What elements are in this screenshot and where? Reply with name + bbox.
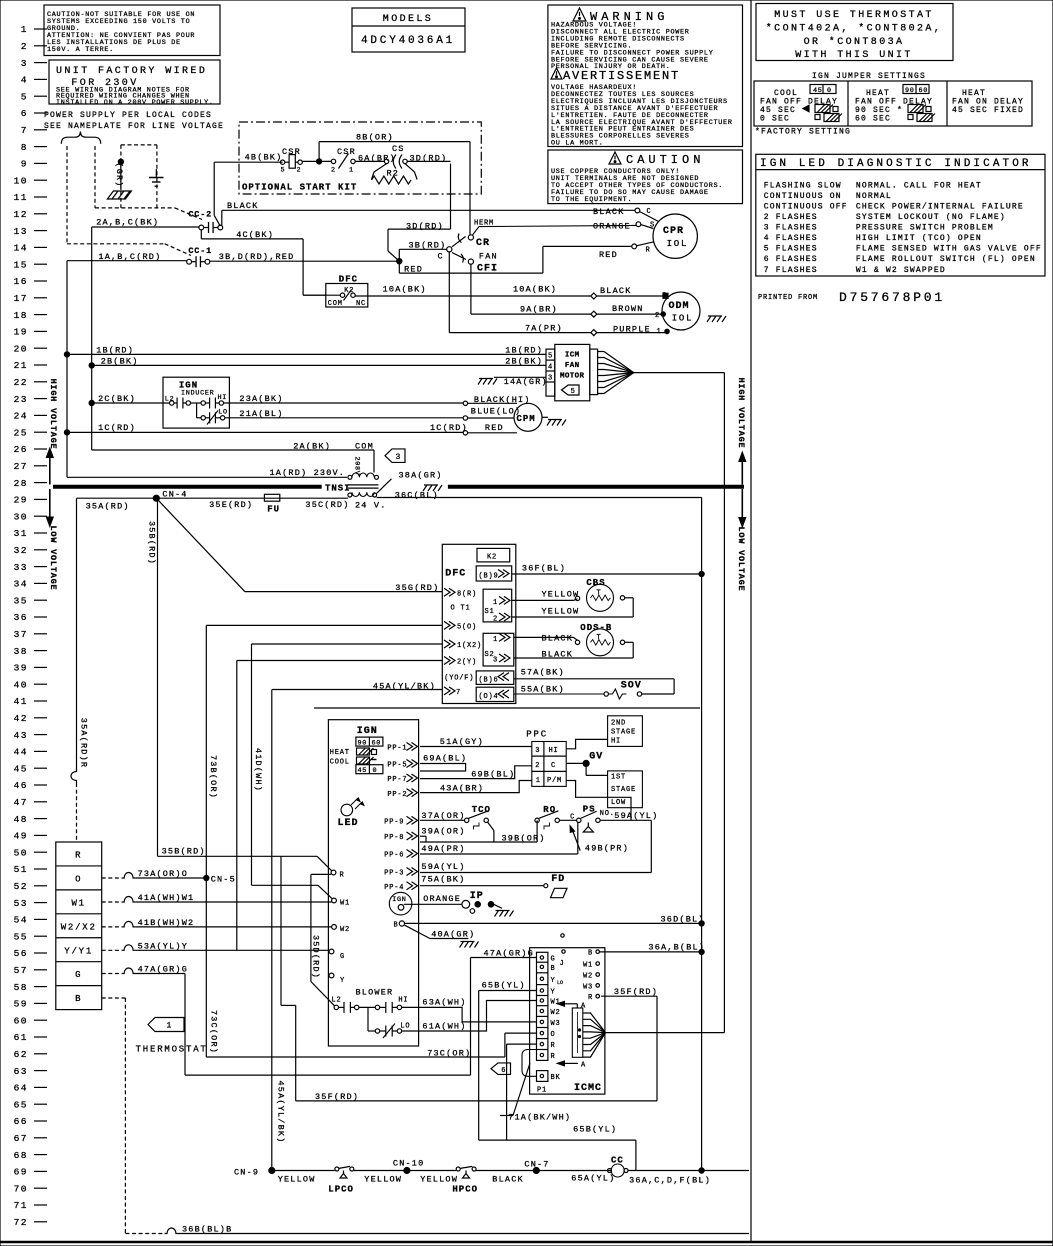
svg-text:A: A (581, 1003, 586, 1011)
control DFC box (442, 544, 516, 703)
svg-text:1A(RD) 230V.: 1A(RD) 230V. (270, 468, 346, 478)
svg-text:37: 37 (14, 629, 28, 640)
svg-text:GV: GV (589, 752, 603, 763)
svg-text:2: 2 (331, 167, 336, 175)
node junction start kit (317, 159, 322, 164)
svg-text:PP-7: PP-7 (387, 776, 407, 784)
svg-text:4B(BK): 4B(BK) (245, 153, 283, 163)
page right divider (750, 0, 752, 1242)
svg-text:36C(BL): 36C(BL) (395, 490, 439, 500)
svg-text:D757678P01: D757678P01 (839, 290, 945, 305)
svg-text:25: 25 (14, 427, 28, 438)
svg-text:2 FLASHES: 2 FLASHES (764, 213, 818, 222)
svg-text:B: B (75, 994, 82, 1004)
svg-text:G: G (75, 970, 82, 980)
svg-text:15: 15 (14, 259, 28, 270)
DFC pin (B)6 (476, 671, 514, 685)
motor ICM FAN MOTOR (546, 349, 555, 396)
DFC S1 cell (483, 589, 512, 622)
svg-text:58: 58 (14, 982, 28, 993)
svg-text:IOL: IOL (672, 314, 694, 324)
svg-text:LO: LO (400, 1022, 410, 1030)
svg-text:2A,B,C(BK): 2A,B,C(BK) (96, 218, 159, 228)
motor ODM (662, 292, 700, 330)
svg-text:45 SEC FIXED: 45 SEC FIXED (952, 106, 1024, 115)
svg-text:69A(BL): 69A(BL) (423, 754, 467, 764)
svg-text:OU LA MORT.: OU LA MORT. (551, 140, 604, 148)
svg-text:49: 49 (14, 831, 28, 842)
svg-text:60: 60 (14, 1015, 28, 1026)
power lead L1 dashed (66, 146, 68, 244)
svg-text:FLAME ROLLOUT SWITCH (FL) OPEN: FLAME ROLLOUT SWITCH (FL) OPEN (856, 255, 1036, 264)
svg-text:YELLOW: YELLOW (278, 1175, 316, 1185)
svg-text:54: 54 (14, 915, 28, 926)
svg-text:W2: W2 (340, 926, 350, 934)
wire 53A(YL) (237, 660, 443, 662)
svg-text:2: 2 (655, 312, 660, 320)
svg-text:CN-10: CN-10 (393, 1159, 425, 1169)
svg-text:BLACK: BLACK (492, 1175, 524, 1185)
heavy line high/low voltage divider (53, 485, 322, 489)
compressor CPR (653, 214, 697, 258)
svg-text:14: 14 (14, 243, 28, 254)
DFC S2 cell (483, 633, 514, 666)
svg-text:63: 63 (14, 1066, 28, 1077)
svg-text:COOL: COOL (330, 759, 350, 767)
svg-text:72: 72 (14, 1217, 28, 1228)
svg-text:1: 1 (167, 1022, 173, 1031)
svg-text:22: 22 (14, 377, 28, 388)
svg-text:O T1: O T1 (451, 605, 471, 613)
svg-text:LO: LO (557, 980, 563, 986)
svg-text:75A(BK): 75A(BK) (421, 875, 465, 885)
svg-text:C: C (570, 814, 575, 822)
svg-text:1: 1 (493, 599, 498, 607)
svg-text:36A,C,D,F(BL): 36A,C,D,F(BL) (629, 1176, 711, 1186)
DFC pin 7 (444, 687, 455, 695)
IGN board terminal G (329, 949, 334, 954)
svg-text:1ST: 1ST (611, 774, 626, 782)
svg-text:20: 20 (14, 343, 28, 354)
ign led diagnostic indicator box (756, 154, 1045, 276)
svg-text:38A(GR): 38A(GR) (399, 471, 443, 481)
svg-text:THERMOSTAT: THERMOSTAT (136, 1045, 208, 1055)
svg-text:AVERTISSEMENT: AVERTISSEMENT (563, 69, 680, 83)
svg-text:2ND: 2ND (611, 720, 626, 728)
svg-text:19: 19 (14, 327, 28, 338)
svg-text:38: 38 (14, 646, 28, 657)
svg-text:FU: FU (267, 505, 280, 515)
svg-text:49A(PR): 49A(PR) (421, 844, 465, 854)
svg-text:ODM: ODM (669, 301, 690, 312)
svg-text:PRINTED FROM: PRINTED FROM (758, 294, 818, 302)
svg-text:W1 & W2 SWAPPED: W1 & W2 SWAPPED (856, 266, 946, 275)
svg-text:71A(BK/WH): 71A(BK/WH) (508, 1112, 571, 1122)
svg-text:5: 5 (21, 91, 28, 102)
svg-text:CR: CR (476, 238, 490, 249)
svg-text:Y: Y (340, 977, 345, 985)
svg-text:BLACK: BLACK (542, 634, 574, 644)
wire 41D jog to W1 (252, 884, 319, 886)
svg-text:HEAT: HEAT (330, 749, 350, 757)
svg-text:7: 7 (21, 125, 28, 136)
IGN board terminal W1 (332, 898, 337, 903)
thermostat wire O 73A (102, 877, 122, 879)
thermostat wire W1 41A (102, 901, 122, 903)
flag 5 (562, 385, 580, 395)
svg-text:PP-4: PP-4 (384, 884, 404, 892)
svg-text:R: R (551, 1042, 556, 1050)
svg-text:CN-9: CN-9 (234, 1167, 259, 1177)
wire P/M to PS NO (566, 781, 631, 821)
spark ground (494, 904, 502, 908)
ICMC right pins (596, 950, 600, 954)
svg-text:FLASHING SLOW: FLASHING SLOW (764, 181, 842, 190)
svg-text:65B(YL): 65B(YL) (573, 1125, 617, 1135)
wire to CSR contact (302, 160, 331, 162)
svg-text:1: 1 (349, 167, 354, 175)
DFC pin (B)9 (476, 566, 512, 581)
svg-text:PP-8: PP-8 (384, 834, 404, 842)
svg-text:6: 6 (21, 108, 28, 119)
svg-text:TNSI: TNSI (325, 484, 351, 494)
control ICMC box (530, 948, 605, 1094)
svg-text:90: 90 (905, 87, 915, 95)
svg-text:HIGH VOLTAGE: HIGH VOLTAGE (48, 379, 58, 450)
svg-text:36D(BL): 36D(BL) (661, 914, 705, 924)
svg-text:UNIT FACTORY WIRED: UNIT FACTORY WIRED (56, 66, 207, 77)
svg-text:24 V.: 24 V. (355, 501, 387, 511)
DFC pin 1(X2) (444, 640, 455, 648)
svg-text:27: 27 (14, 461, 28, 472)
svg-text:90: 90 (358, 739, 368, 747)
svg-text:W3: W3 (551, 1020, 561, 1028)
page bottom border (0, 1241, 1053, 1244)
svg-text:W2: W2 (583, 973, 593, 981)
svg-text:3: 3 (21, 58, 28, 69)
DFC pin 5(O) (444, 621, 455, 629)
ICMC pin column (537, 952, 548, 1060)
svg-text:1: 1 (21, 24, 28, 35)
svg-text:SOV: SOV (621, 681, 642, 692)
spark igniter IGN (389, 892, 412, 915)
svg-text:W3: W3 (583, 983, 593, 991)
ICM connector fan-out (590, 349, 598, 395)
svg-text:FD: FD (551, 874, 565, 885)
svg-text:0 SEC: 0 SEC (760, 115, 790, 124)
svg-text:5(O): 5(O) (457, 624, 477, 632)
svg-text:IGN JUMPER SETTINGS: IGN JUMPER SETTINGS (812, 72, 926, 81)
svg-text:P/M: P/M (547, 777, 562, 785)
wire HERM to S (gray) (473, 225, 636, 235)
svg-text:T: T (597, 634, 602, 642)
inducer IGN INDUCER box (163, 377, 229, 428)
svg-text:LOW: LOW (611, 799, 626, 807)
svg-text:36F(BL): 36F(BL) (522, 564, 566, 574)
svg-text:35F(RD): 35F(RD) (614, 987, 658, 997)
svg-text:HI: HI (611, 738, 621, 746)
svg-text:42: 42 (14, 713, 28, 724)
svg-text:TO THE EQUIPMENT.: TO THE EQUIPMENT. (551, 196, 632, 204)
svg-text:2(Y): 2(Y) (457, 659, 477, 667)
DFC pin 2(Y) (444, 657, 455, 665)
svg-text:66: 66 (14, 1116, 28, 1127)
bus 36(BL) vertical (701, 498, 703, 1172)
svg-text:50: 50 (14, 847, 28, 858)
svg-text:7 FLASHES: 7 FLASHES (764, 266, 818, 275)
svg-text:26: 26 (14, 444, 28, 455)
DFC K2 cell (477, 548, 510, 562)
svg-text:L2: L2 (332, 997, 342, 1005)
svg-text:56: 56 (14, 948, 28, 959)
splice bell on 35A (71, 769, 77, 783)
svg-text:5: 5 (281, 167, 286, 175)
svg-text:32: 32 (14, 545, 28, 556)
svg-text:43: 43 (14, 730, 28, 741)
svg-text:9: 9 (21, 159, 28, 170)
svg-text:NC: NC (356, 300, 366, 308)
ICMC connector A (572, 1008, 583, 1057)
svg-text:YELLOW: YELLOW (420, 1175, 458, 1185)
svg-text:70: 70 (14, 1183, 28, 1194)
svg-text:59A(YL): 59A(YL) (421, 862, 465, 872)
svg-text:LOW VOLTAGE: LOW VOLTAGE (48, 526, 58, 591)
svg-text:C: C (647, 208, 652, 216)
svg-text:49B(PR): 49B(PR) (585, 843, 629, 853)
svg-text:35A(RD): 35A(RD) (86, 502, 130, 512)
svg-text:T: T (597, 590, 602, 598)
svg-text:G: G (340, 953, 345, 961)
svg-text:*FACTORY SETTING: *FACTORY SETTING (755, 128, 851, 137)
svg-text:40: 40 (14, 679, 28, 690)
svg-text:3: 3 (396, 453, 402, 462)
svg-text:8: 8 (21, 142, 28, 153)
svg-text:0: 0 (827, 87, 832, 95)
svg-text:DFC: DFC (445, 569, 466, 580)
svg-text:FAN: FAN (479, 252, 498, 262)
svg-text:SYSTEM LOCKOUT (NO FLAME): SYSTEM LOCKOUT (NO FLAME) (856, 213, 1006, 222)
svg-text:35B(RD): 35B(RD) (147, 521, 157, 565)
svg-text:OR *CONT803A: OR *CONT803A (804, 36, 905, 48)
svg-text:ICMC: ICMC (574, 1083, 602, 1094)
svg-text:B: B (394, 922, 399, 930)
svg-text:FAN: FAN (565, 362, 580, 370)
svg-text:B: B (551, 965, 556, 973)
R bus down legs (280, 856, 282, 1005)
svg-text:2: 2 (535, 762, 540, 770)
svg-text:52: 52 (14, 881, 28, 892)
svg-text:73C(OR): 73C(OR) (209, 1010, 219, 1054)
svg-text:13: 13 (14, 226, 28, 237)
svg-text:CBS: CBS (586, 578, 605, 588)
svg-text:34: 34 (14, 579, 28, 590)
svg-text:71: 71 (14, 1200, 28, 1211)
svg-text:BK: BK (551, 1074, 561, 1082)
svg-text:60: 60 (372, 739, 382, 747)
thermostat strip (56, 842, 102, 1010)
svg-text:IGN: IGN (357, 726, 378, 737)
earth ground symbol (155, 169, 157, 178)
svg-text:ORANGE: ORANGE (593, 222, 631, 232)
svg-text:ORANGE: ORANGE (423, 894, 461, 904)
wire 35G(RD) diagonal (156, 498, 245, 591)
svg-text:33: 33 (14, 562, 28, 573)
svg-text:HPCO: HPCO (452, 1185, 478, 1195)
thermostat wire Y 53A (102, 949, 122, 951)
svg-text:R: R (551, 1053, 556, 1061)
power lead L2 dashed (94, 146, 96, 208)
svg-text:PP-5: PP-5 (387, 762, 407, 770)
svg-text:0: 0 (373, 767, 378, 775)
svg-text:STAGE: STAGE (611, 729, 636, 737)
svg-text:64: 64 (14, 1083, 28, 1094)
svg-text:30: 30 (14, 511, 28, 522)
svg-text:NORMAL. CALL FOR HEAT: NORMAL. CALL FOR HEAT (856, 181, 982, 190)
svg-text:12: 12 (14, 209, 28, 220)
svg-text:PRESSURE SWITCH PROBLEM: PRESSURE SWITCH PROBLEM (856, 224, 994, 233)
svg-text:J: J (560, 960, 565, 968)
svg-text:60: 60 (919, 87, 929, 95)
svg-text:55A(BK): 55A(BK) (521, 685, 565, 695)
svg-text:8(R): 8(R) (457, 591, 477, 599)
svg-text:BROWN: BROWN (612, 304, 644, 314)
svg-text:HIGH VOLTAGE: HIGH VOLTAGE (736, 378, 746, 449)
svg-text:P1: P1 (537, 1087, 547, 1095)
note: unit factory wired box (49, 60, 220, 104)
left bus 2(BK) (91, 227, 93, 450)
svg-text:45: 45 (14, 763, 28, 774)
thermostat wire G 47A (102, 973, 122, 975)
svg-text:4: 4 (21, 75, 28, 86)
wire HI to 2nd stage (566, 739, 607, 748)
svg-text:17: 17 (14, 293, 28, 304)
thermostat wire W2 41B (102, 926, 122, 928)
DFC pin 8(R) (444, 588, 455, 596)
must use thermostat box (756, 4, 953, 61)
svg-text:35E(RD): 35E(RD) (209, 500, 253, 510)
svg-text:7: 7 (456, 689, 461, 697)
svg-text:BLACK: BLACK (600, 286, 632, 296)
svg-text:C: C (438, 252, 444, 262)
thermostat wire B dashed (102, 997, 126, 999)
IGN board terminal R (331, 870, 336, 875)
svg-text:RED: RED (599, 250, 618, 260)
svg-text:BLACK: BLACK (593, 207, 625, 217)
DFC pin (O)4 (476, 687, 514, 701)
ground (GR) dashed box (120, 145, 122, 208)
svg-text:W1: W1 (340, 900, 350, 908)
svg-text:2: 2 (493, 616, 498, 624)
inducer contact HI (170, 401, 174, 405)
svg-text:51A(GY): 51A(GY) (440, 737, 484, 747)
svg-text:INDUCER: INDUCER (181, 390, 214, 398)
svg-text:31: 31 (14, 528, 28, 539)
svg-text:W2/X2: W2/X2 (61, 922, 97, 932)
svg-text:9A(BR): 9A(BR) (520, 305, 558, 315)
svg-text:61A(WH): 61A(WH) (422, 1022, 466, 1032)
svg-text:5: 5 (548, 353, 553, 361)
svg-text:57: 57 (14, 965, 28, 976)
svg-text:IGN: IGN (392, 896, 406, 904)
LED indicator (341, 804, 353, 816)
svg-text:PP-3: PP-3 (384, 870, 404, 878)
svg-text:MUST USE THERMOSTAT: MUST USE THERMOSTAT (774, 10, 934, 21)
svg-text:11: 11 (14, 192, 28, 203)
svg-text:O: O (75, 874, 82, 884)
svg-text:63A(WH): 63A(WH) (422, 997, 466, 1007)
svg-text:1C(RD): 1C(RD) (430, 423, 468, 433)
svg-text:29: 29 (14, 495, 28, 506)
svg-text:R: R (340, 872, 345, 880)
svg-text:BLACK: BLACK (227, 201, 259, 211)
svg-text:7A(PR): 7A(PR) (525, 323, 563, 333)
svg-text:W2: W2 (551, 1009, 561, 1017)
P1 jumper bracket (522, 1050, 537, 1077)
vertical 53 (236, 661, 238, 951)
svg-text:1C(RD): 1C(RD) (98, 423, 136, 433)
svg-text:CSR: CSR (282, 147, 301, 157)
svg-text:CONTINUOUS OFF: CONTINUOUS OFF (764, 202, 848, 211)
svg-text:CHECK POWER/INTERNAL FAILURE: CHECK POWER/INTERNAL FAILURE (856, 202, 1024, 211)
svg-text:47: 47 (14, 797, 28, 808)
svg-text:1: 1 (536, 777, 541, 785)
IGN board terminal W2 (332, 925, 337, 930)
svg-text:R: R (646, 247, 651, 255)
svg-text:CC-2: CC-2 (188, 210, 212, 220)
svg-text:RED: RED (485, 423, 504, 433)
svg-text:46: 46 (14, 780, 28, 791)
avertissement title (551, 68, 562, 79)
svg-text:2: 2 (297, 167, 302, 175)
power supply brace (61, 132, 100, 144)
svg-text:NO.: NO. (600, 810, 615, 818)
chassis ground symbol (107, 191, 131, 199)
svg-text:LOW VOLTAGE: LOW VOLTAGE (736, 527, 746, 592)
svg-text:PPC: PPC (526, 730, 548, 740)
svg-text:IGN LED DIAGNOSTIC INDICATOR: IGN LED DIAGNOSTIC INDICATOR (760, 158, 1032, 170)
svg-text:COM: COM (328, 300, 343, 308)
vertical 41 (251, 644, 253, 885)
svg-text:4: 4 (548, 364, 553, 372)
svg-text:36A,B(BL): 36A,B(BL) (648, 943, 705, 953)
svg-text:65B(YL): 65B(YL) (482, 981, 526, 991)
box 1ST STAGE LOW (608, 771, 643, 808)
svg-text:K2: K2 (487, 553, 497, 561)
wire to ICMC R pin (507, 1043, 537, 1045)
svg-text:14A(GR): 14A(GR) (504, 377, 548, 387)
svg-text:44: 44 (14, 747, 28, 758)
svg-text:PP-1: PP-1 (387, 745, 407, 753)
svg-text:60 SEC: 60 SEC (855, 115, 891, 124)
note: caution 150 volts box (44, 5, 220, 56)
dashed link to CC-1 (67, 243, 165, 245)
svg-text:10A(BK): 10A(BK) (383, 284, 427, 294)
svg-text:36: 36 (14, 612, 28, 623)
svg-text:OPTIONAL START KIT: OPTIONAL START KIT (242, 183, 357, 193)
svg-text:YELLOW: YELLOW (542, 607, 580, 617)
svg-text:SEE NAMEPLATE FOR LINE VOLTAGE: SEE NAMEPLATE FOR LINE VOLTAGE (44, 122, 224, 131)
svg-text:IOL: IOL (667, 239, 689, 249)
svg-text:6: 6 (501, 1067, 506, 1075)
svg-text:5: 5 (571, 388, 576, 396)
ODM ground (314, 707, 700, 709)
svg-text:CPR: CPR (663, 226, 684, 237)
svg-text:35: 35 (14, 595, 28, 606)
svg-text:59: 59 (14, 999, 28, 1010)
svg-text:35A(RD)R: 35A(RD)R (79, 718, 89, 768)
svg-text:WITH THIS UNIT: WITH THIS UNIT (795, 50, 913, 61)
caution box (548, 150, 743, 204)
